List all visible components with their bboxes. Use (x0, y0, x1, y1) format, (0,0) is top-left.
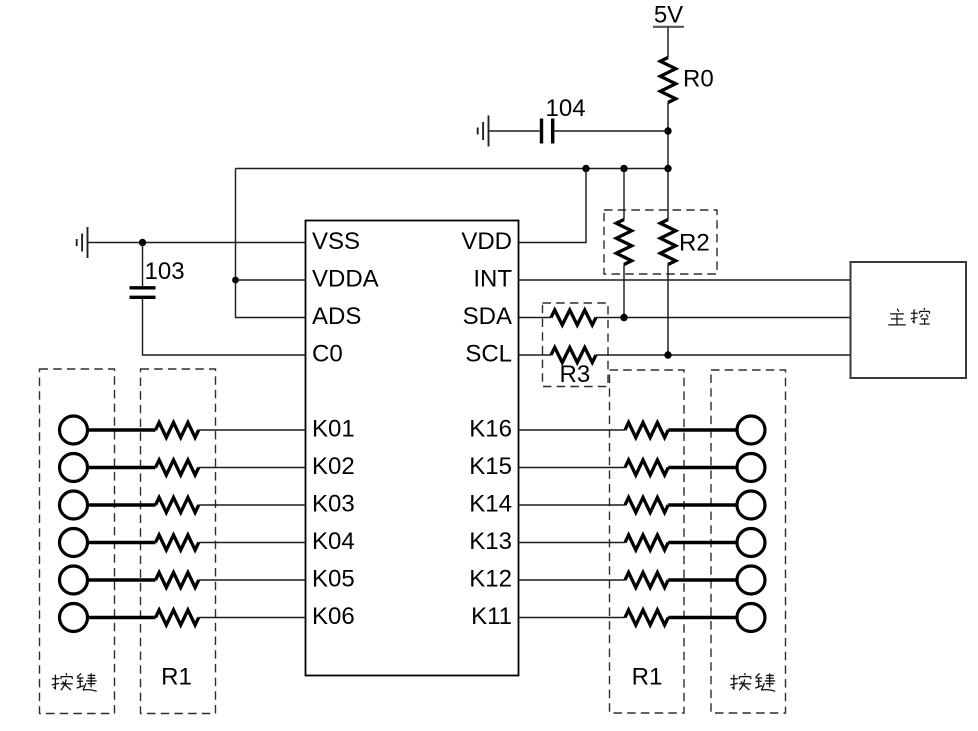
button S15 (right) (737, 454, 765, 482)
resistor R1-4 (left) (156, 535, 199, 550)
wire R1-5 to pin K05 (199, 579, 306, 581)
svg-text:K03: K03 (312, 490, 355, 517)
label 按键 right (730, 673, 775, 691)
junction VSS/C103 (139, 239, 146, 246)
wire resistor to button (right) (668, 616, 737, 620)
junction rail/VDD (582, 165, 589, 172)
wire 5V to R0 (667, 27, 669, 58)
wire pin K14 to R1 (right) (519, 504, 626, 506)
svg-text:INT: INT (473, 265, 512, 292)
wire ground to C104 (489, 130, 540, 132)
resistor R1-3 (left) (156, 498, 199, 513)
svg-text:K01: K01 (312, 415, 355, 442)
resistor R2a (616, 220, 631, 265)
wire SDA: IC to resistor (519, 317, 552, 319)
svg-text:C0: C0 (312, 340, 343, 367)
wire R1-4 to pin K04 (199, 542, 306, 544)
ground (VSS) (77, 227, 88, 258)
junction rail/R2a (620, 165, 627, 172)
svg-text:K13: K13 (469, 528, 512, 555)
wire resistor to button (right) (668, 466, 737, 470)
resistor R1-6 (left) (156, 610, 199, 625)
svg-text:R0: R0 (683, 66, 714, 93)
button S3 (left) (60, 491, 88, 519)
svg-text:K14: K14 (469, 490, 512, 517)
wire button to R1-4 (88, 541, 156, 545)
svg-text:SCL: SCL (465, 340, 512, 367)
ground (for C104) (478, 116, 489, 147)
resistor R2b (660, 220, 675, 265)
junction rail/R2b (664, 165, 671, 172)
button S4 (left) (60, 529, 88, 557)
resistor R1-15 (right) (625, 460, 668, 475)
svg-text:K15: K15 (469, 453, 512, 480)
wire junction to C103 (142, 243, 144, 287)
power 5V (653, 2, 684, 29)
box keys right (dashed) (711, 370, 786, 713)
wire VDD pin to rail (519, 169, 587, 243)
wire resistor to button (right) (668, 503, 737, 507)
resistor R1-11 (right) (625, 610, 668, 625)
junction node R0/C104 (664, 127, 671, 134)
svg-text:K12: K12 (469, 565, 512, 592)
wire rail to R2a (623, 169, 625, 220)
label 按键 left (52, 673, 97, 691)
button S6 (left) (60, 604, 88, 632)
svg-text:K11: K11 (471, 603, 512, 630)
svg-text:R1: R1 (632, 664, 663, 691)
svg-text:ADS: ADS (312, 303, 361, 330)
wire SCL to 主控 (596, 354, 851, 356)
wire SCL: IC to resistor (519, 354, 552, 356)
button S1 (left) (60, 416, 88, 444)
wire R0 to node (667, 103, 669, 169)
button S2 (left) (60, 454, 88, 482)
resistor R1-1 (left) (156, 423, 199, 438)
wire to VDDA pin (236, 279, 306, 281)
svg-text:K06: K06 (312, 603, 355, 630)
junction VDDA tap (232, 277, 239, 284)
junction SDA/R2a (620, 314, 627, 321)
resistor R1-14 (right) (625, 498, 668, 513)
wire SDA to 主控 (596, 317, 851, 319)
resistor R3a (SDA) (551, 310, 596, 325)
box keys left (dashed) (40, 369, 115, 714)
resistor R1-16 (right) (625, 423, 668, 438)
resistor R1-2 (left) (156, 460, 199, 475)
wire button to R1-5 (88, 578, 156, 582)
wire resistor to button (right) (668, 541, 737, 545)
svg-text:K05: K05 (312, 565, 355, 592)
svg-text:R1: R1 (161, 664, 192, 691)
svg-text:K04: K04 (312, 528, 355, 555)
svg-text:R3: R3 (560, 361, 591, 388)
wire R1-1 to pin K01 (199, 429, 306, 431)
capacitor 103 (130, 258, 185, 297)
wire pin K11 to R1 (right) (519, 617, 626, 619)
wire R1-2 to pin K02 (199, 467, 306, 469)
wire button to R1-1 (88, 428, 156, 432)
wire ground to VSS pin (88, 242, 306, 244)
resistor R3b (SCL) (551, 348, 596, 363)
wire C103 to C0 pin (143, 299, 306, 355)
svg-text:VDD: VDD (461, 228, 512, 255)
block 主控 (main controller) (851, 262, 967, 378)
svg-text:5V: 5V (654, 2, 683, 29)
wire resistor to button (right) (668, 428, 737, 432)
wire rail down to ADS (236, 169, 306, 318)
box R1 right (dashed) (610, 370, 685, 713)
box R2 (dashed) (604, 210, 717, 274)
button S5 (left) (60, 566, 88, 594)
button S14 (right) (737, 491, 765, 519)
junction SCL/R2b (664, 351, 671, 358)
wire pin K12 to R1 (right) (519, 579, 626, 581)
box R1 left (dashed) (141, 369, 216, 714)
wire R1-6 to pin K06 (199, 617, 306, 619)
svg-text:VDDA: VDDA (312, 265, 379, 292)
svg-text:103: 103 (145, 258, 185, 285)
wire pin K16 to R1 (right) (519, 429, 626, 431)
wire VDD rail (236, 168, 669, 170)
svg-text:K02: K02 (312, 453, 355, 480)
svg-text:SDA: SDA (463, 303, 512, 330)
wire button to R1-2 (88, 466, 156, 470)
wire rail to R2b (667, 169, 669, 220)
button S13 (right) (737, 529, 765, 557)
svg-text:VSS: VSS (312, 228, 360, 255)
wire R2b to SCL (667, 265, 669, 356)
resistor R1-5 (left) (156, 573, 199, 588)
button S11 (right) (737, 604, 765, 632)
wire R1-3 to pin K03 (199, 504, 306, 506)
capacitor 104 (542, 95, 586, 144)
resistor R0 (660, 58, 713, 103)
wire button to R1-6 (88, 616, 156, 620)
wire pin K13 to R1 (right) (519, 542, 626, 544)
box R3 (dashed) (543, 303, 609, 387)
wire button to R1-3 (88, 503, 156, 507)
wire C104 to node (554, 130, 668, 132)
svg-text:104: 104 (546, 95, 586, 122)
button S12 (right) (737, 566, 765, 594)
svg-text:R2: R2 (679, 230, 710, 257)
resistor R1-13 (right) (625, 535, 668, 550)
resistor R1-12 (right) (625, 573, 668, 588)
wire pin K15 to R1 (right) (519, 467, 626, 469)
IC U1 (key controller) (306, 221, 519, 676)
wire R2a to SDA (623, 265, 625, 318)
wire resistor to button (right) (668, 578, 737, 582)
button S16 (right) (737, 416, 765, 444)
wire INT to 主控 (519, 279, 851, 281)
svg-text:K16: K16 (469, 415, 512, 442)
